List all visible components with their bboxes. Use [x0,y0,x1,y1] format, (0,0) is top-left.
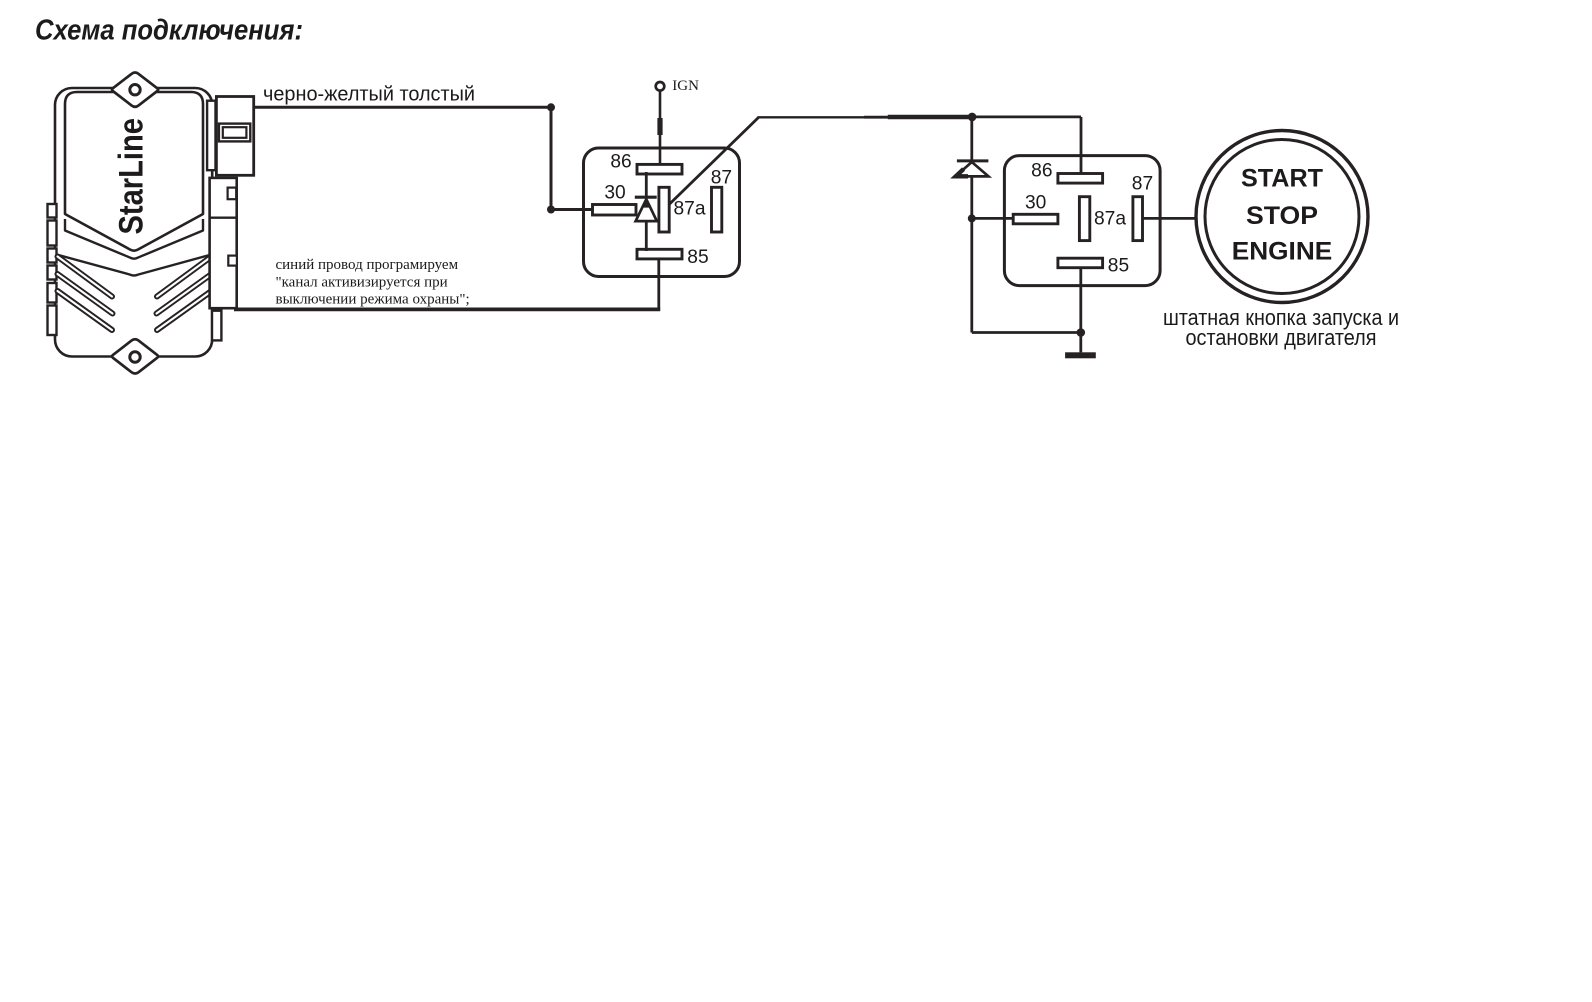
svg-text:87: 87 [1132,174,1153,195]
svg-text:30: 30 [604,183,625,204]
svg-text:85: 85 [687,247,708,268]
svg-text:IGN: IGN [672,78,699,94]
svg-text:выключении режима охраны";: выключении режима охраны"; [276,292,470,308]
svg-text:30: 30 [1025,193,1046,214]
svg-text:87a: 87a [1094,209,1126,230]
svg-text:87: 87 [711,168,732,189]
svg-text:ENGINE: ENGINE [1232,238,1333,266]
svg-text:черно-желтый толстый: черно-желтый толстый [263,84,475,106]
svg-text:"канал активизируется при: "канал активизируется при [276,274,448,290]
svg-text:86: 86 [610,152,631,173]
svg-text:Схема подключения:: Схема подключения: [35,15,303,47]
svg-text:STOP: STOP [1246,202,1318,230]
svg-text:87a: 87a [674,198,706,219]
svg-text:StarLine: StarLine [112,118,150,235]
svg-text:86: 86 [1031,160,1052,181]
svg-text:остановки двигателя: остановки двигателя [1186,325,1377,350]
svg-text:синий провод програмируем: синий провод програмируем [276,257,459,273]
svg-text:85: 85 [1108,256,1129,277]
svg-text:START: START [1241,164,1323,192]
